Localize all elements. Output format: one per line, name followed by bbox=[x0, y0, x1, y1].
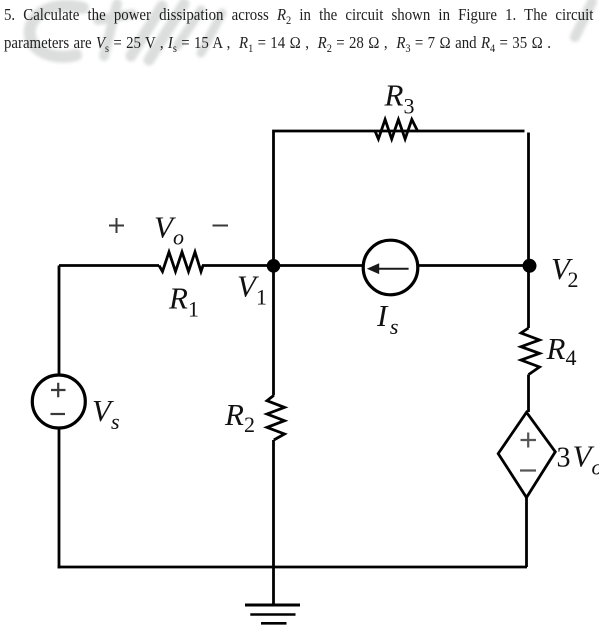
svg-text:V1: V1 bbox=[237, 269, 267, 310]
wire: middle horizontal left segment bbox=[59, 264, 159, 267]
svg-text:Is: Is bbox=[376, 298, 398, 339]
svg-text:R2: R2 bbox=[224, 397, 255, 437]
wire: R4 to dependent source bbox=[527, 375, 530, 412]
problem text line 1 bbox=[4, 5, 593, 25]
svg-text:R1: R1 bbox=[168, 281, 199, 322]
svg-text:V2: V2 bbox=[551, 251, 578, 292]
svg-text:Vs: Vs bbox=[92, 393, 120, 434]
svg-text:3Vo: 3Vo bbox=[557, 439, 599, 480]
wire: middle horizontal V1 to current source bbox=[202, 264, 363, 267]
sign + of Vo bbox=[109, 218, 124, 233]
wire: current source to node V2 bbox=[417, 264, 528, 267]
sign - of dependent source bbox=[520, 469, 536, 471]
voltage source Vs bbox=[32, 375, 85, 428]
sign - of Vo bbox=[213, 225, 229, 227]
problem text line 2 bbox=[4, 33, 551, 53]
resistor R3 bbox=[375, 120, 418, 140]
resistor R1 bbox=[159, 252, 203, 272]
ground bbox=[245, 605, 300, 623]
wire: dependent source to bottom wire bbox=[525, 498, 528, 568]
sign + of dependent source bbox=[521, 433, 537, 448]
svg-text:R3: R3 bbox=[384, 78, 415, 119]
current source Is bbox=[363, 240, 418, 295]
node V2 bbox=[523, 259, 537, 273]
wire: top branch (V1 up and across) bbox=[274, 131, 525, 266]
resistor R4 bbox=[521, 328, 540, 375]
dependent source 3Vo diamond bbox=[498, 412, 555, 497]
wire: left vertical lower bbox=[58, 428, 61, 568]
wire: left vertical upper bbox=[58, 266, 61, 376]
wire: bottom horizontal bbox=[58, 566, 527, 569]
resistor R2 bbox=[267, 395, 285, 440]
svg-text:R4: R4 bbox=[546, 331, 577, 370]
wire: middle vertical V1 to R2 bbox=[272, 266, 275, 396]
svg-text:Vo: Vo bbox=[154, 210, 184, 250]
node V1 bbox=[267, 259, 281, 273]
wire: V2 down to R4 bbox=[527, 266, 530, 329]
wire: right vertical from top corner to V2 bbox=[527, 133, 530, 266]
wire: R2 down through bottom wire to ground bbox=[272, 440, 275, 605]
